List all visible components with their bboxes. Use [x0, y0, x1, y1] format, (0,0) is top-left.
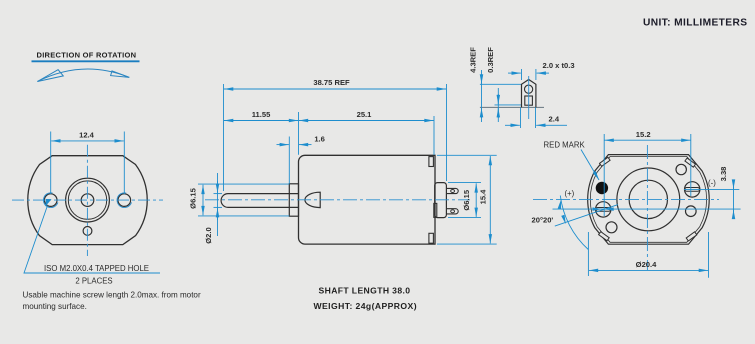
angle arc arrow at centerline: [560, 200, 561, 207]
dim dia2.0 line: [217, 173, 219, 236]
red mark dot: [596, 182, 608, 194]
dia2.0 shaft edge tick top: [214, 193, 223, 195]
terminal washer line: [495, 104, 522, 106]
rotation arrow left head: [37, 70, 63, 82]
svg-text:1.6: 1.6: [314, 134, 325, 143]
minus terminal line: [684, 188, 739, 190]
shaft: [221, 194, 298, 208]
dim 2.0xt0.3 right arrow: [537, 72, 549, 74]
small hole top-right: [676, 164, 686, 174]
terminal slot (detail): [525, 96, 533, 105]
lower brush plate: [434, 203, 437, 217]
angle arc arrow at diagonal: [564, 218, 566, 225]
dim 12.4 extension lines: [50, 132, 52, 195]
top-left notch: [600, 157, 611, 166]
svg-text:(+): (+): [565, 189, 575, 198]
minus terminal circle: [685, 182, 700, 197]
dim 15.2 ext right: [690, 134, 692, 196]
top-right notch: [685, 158, 696, 167]
endbell housing: [435, 183, 447, 218]
dim 15.4 ext top: [437, 154, 497, 156]
right tapped hole thread arc: [117, 193, 131, 208]
dim 25.1 extension right: [433, 116, 435, 155]
svg-text:2.0 x t0.3: 2.0 x t0.3: [543, 61, 575, 70]
svg-text:RED MARK: RED MARK: [544, 141, 586, 150]
dim dia6.15 right ext bottom: [448, 217, 481, 219]
dim dia2.0 bottom arrow: [217, 208, 219, 220]
dim 3.38 line: [733, 182, 735, 216]
dim 2.0xt0.3 ext left: [521, 69, 523, 80]
svg-text:38.75 REF: 38.75 REF: [313, 78, 350, 87]
plus terminal left arrow: [596, 208, 602, 210]
dim 2.4 tail: [551, 124, 567, 126]
svg-text:Usable machine screw length 2.: Usable machine screw length 2.0max. from…: [23, 291, 201, 300]
lower terminal tab (side): [446, 209, 458, 214]
terminal top reference line: [480, 83, 521, 85]
dim 1.6 extension body: [298, 112, 300, 155]
dim 1.6 extension boss: [288, 137, 290, 184]
angle 20deg20 arc: [560, 196, 588, 250]
svg-text:Ø6.15: Ø6.15: [462, 189, 471, 210]
rear horizontal centerline: [533, 198, 719, 200]
front view outline: [28, 156, 147, 245]
terminal hole (detail): [525, 85, 533, 93]
red mark leader: [581, 150, 599, 181]
dim 1.6 right arrow: [299, 144, 312, 146]
dim dia20.4 line: [589, 269, 708, 271]
dim dia6.15 left ext bottom: [198, 215, 289, 217]
small hole right-lower: [686, 206, 697, 217]
svg-text:25.1: 25.1: [357, 110, 373, 119]
dim 12.4 line: [51, 140, 124, 142]
front bearing boss: [289, 184, 298, 216]
small hole bottom-left: [606, 222, 617, 233]
dim 3.38 top arrow: [733, 184, 735, 189]
rear outline inner: [590, 157, 706, 243]
dim 2.4 ext right: [535, 107, 537, 128]
terminal outline (detail): [522, 80, 536, 108]
dim 0.3REF top arrow: [497, 94, 499, 104]
dim 2.4 left arrow: [505, 124, 520, 126]
left tapped hole: [44, 194, 57, 207]
dim 38.75 REF extension left: [223, 84, 225, 191]
rotation arrow arc: [37, 69, 129, 81]
upper terminal hole: [451, 190, 455, 193]
dim 4.3REF top arrow: [481, 74, 483, 84]
svg-text:12.4: 12.4: [79, 131, 95, 140]
svg-text:WEIGHT: 24g(APPROX): WEIGHT: 24g(APPROX): [314, 301, 417, 311]
dim 38.75 REF line: [224, 88, 446, 90]
dim dia2.0 top arrow: [217, 181, 219, 193]
rear center hole: [629, 180, 667, 218]
left tapped hole thread arc: [43, 193, 57, 208]
right tapped hole: [118, 194, 131, 207]
plus terminal slot: [596, 208, 611, 212]
dim 4.3REF line: [481, 70, 483, 122]
front bottom hole: [83, 227, 92, 236]
dim dia20.4 ext right: [708, 232, 710, 278]
bearing dome: [305, 192, 320, 207]
dim dia20.4 ext left: [587, 232, 589, 276]
svg-text:Ø20.4: Ø20.4: [636, 260, 657, 269]
dim 15.4 line: [489, 156, 491, 243]
dim dia6.15 right ext top: [448, 182, 481, 184]
rear vertical centerline: [646, 145, 648, 270]
svg-text:15.2: 15.2: [636, 130, 651, 139]
svg-text:3.38: 3.38: [719, 167, 728, 182]
dim 11.55 line: [224, 120, 298, 122]
svg-text:ISO M2.0X0.4 TAPPED HOLE: ISO M2.0X0.4 TAPPED HOLE: [44, 264, 149, 273]
svg-text:2 PLACES: 2 PLACES: [75, 277, 112, 286]
motor body: [299, 155, 436, 244]
dim 1.6 left arrow: [277, 144, 289, 146]
minus terminal slot: [685, 188, 700, 192]
front boss outer circle: [66, 178, 110, 222]
leader to tapped hole: [24, 206, 160, 274]
front shaft hole: [81, 194, 94, 207]
svg-text:20°20': 20°20': [532, 216, 554, 225]
leader arrowhead: [43, 197, 51, 207]
plus terminal circle: [596, 202, 611, 217]
svg-text:Ø6.15: Ø6.15: [189, 187, 198, 208]
bottom-right body tab: [429, 233, 434, 243]
plus terminal line: [553, 208, 741, 210]
underline: [32, 60, 140, 62]
dim 3.38 bottom arrow: [733, 210, 735, 215]
dim 2.0xt0.3 ext right: [535, 69, 537, 80]
svg-text:4.3REF: 4.3REF: [469, 47, 478, 73]
dim dia6.15 left ext top: [198, 183, 289, 185]
svg-text:(-): (-): [708, 178, 716, 187]
dim 2.4 ext left: [520, 107, 522, 128]
base surface line: [480, 106, 544, 108]
dim 38.75 REF extension right: [446, 84, 448, 181]
svg-text:UNIT: MILLIMETERS: UNIT: MILLIMETERS: [643, 18, 747, 29]
terminal centerline (detail): [528, 76, 530, 119]
dim dia6.15 left line: [202, 185, 204, 215]
svg-text:mounting surface.: mounting surface.: [23, 302, 87, 311]
dim 0.3REF bottom arrow: [497, 108, 499, 118]
side view centerline: [205, 199, 470, 201]
bottom-right notch: [686, 232, 697, 241]
svg-text:0.3REF: 0.3REF: [486, 47, 495, 73]
front vertical centerline: [86, 145, 88, 256]
svg-text:Ø2.0: Ø2.0: [204, 227, 213, 243]
dim 15.4 ext bottom: [437, 243, 497, 245]
top-right body tab: [429, 157, 434, 167]
svg-text:15.4: 15.4: [479, 189, 488, 205]
svg-text:11.55: 11.55: [252, 110, 271, 119]
plus terminal right arrow: [604, 208, 610, 210]
front boss inner circle: [68, 181, 106, 219]
svg-text:DIRECTION OF ROTATION: DIRECTION OF ROTATION: [37, 50, 137, 59]
rear outline outer: [588, 155, 710, 245]
dim dia6.15 right line: [475, 183, 477, 217]
dim 0.3REF line: [497, 88, 499, 122]
dim 15.2 ext left: [603, 134, 605, 216]
dim 4.3REF bottom arrow: [481, 108, 483, 118]
dim 2.4 right arrow: [536, 124, 551, 126]
front horizontal centerline: [12, 199, 163, 201]
upper terminal tab (side): [446, 188, 458, 193]
dim 15.2 line: [605, 139, 691, 141]
angle 20deg20 diagonal: [555, 205, 618, 227]
svg-text:2.4: 2.4: [549, 114, 560, 123]
rear bearing ring: [617, 168, 680, 231]
lower terminal hole: [451, 210, 455, 213]
dia2.0 shaft edge tick bottom: [214, 206, 223, 208]
bottom-left notch: [599, 232, 610, 241]
rotation arrow right head: [111, 71, 130, 78]
svg-text:SHAFT LENGTH 38.0: SHAFT LENGTH 38.0: [319, 286, 411, 296]
dim 2.0xt0.3 left arrow: [508, 72, 521, 74]
dim 25.1 line: [299, 120, 434, 122]
